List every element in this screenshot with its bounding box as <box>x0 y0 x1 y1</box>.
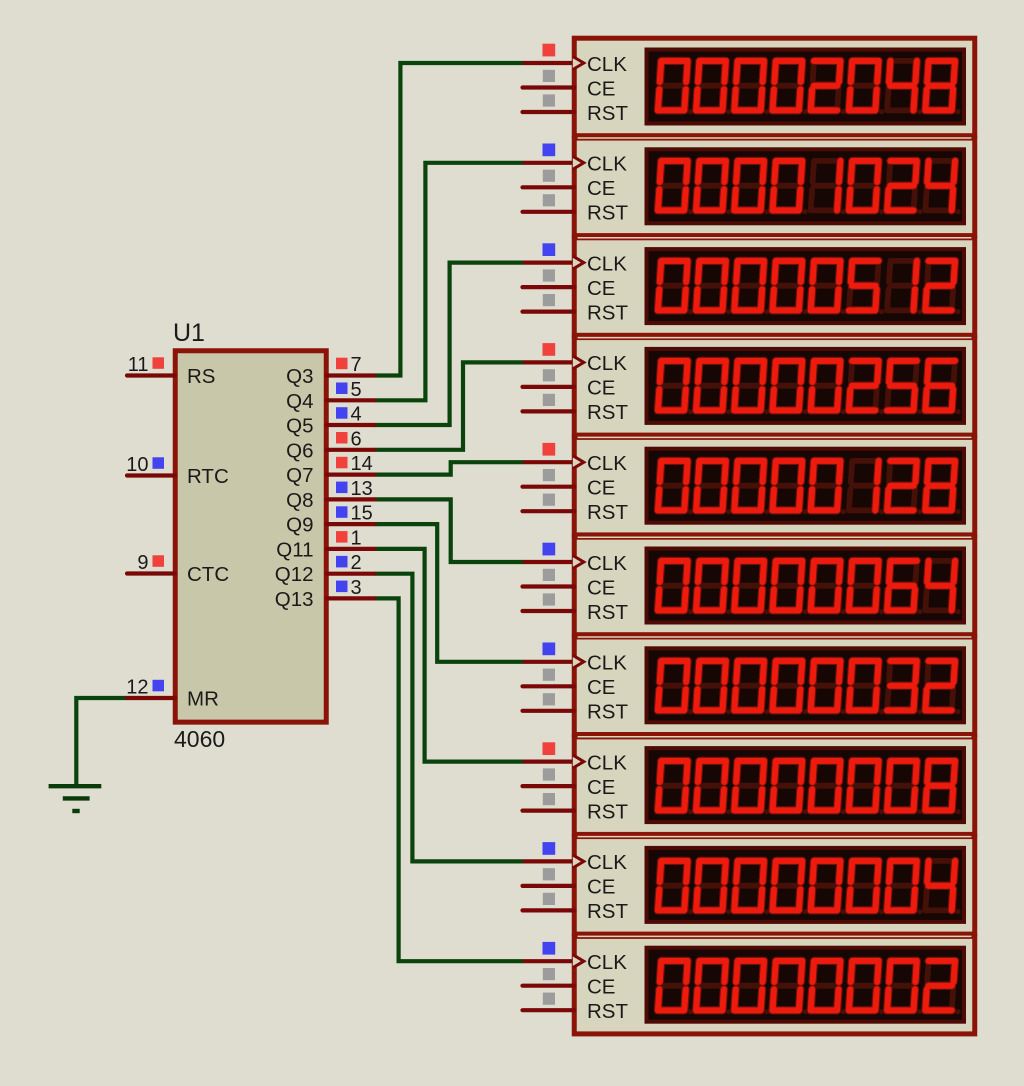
svg-text:Q9: Q9 <box>286 514 313 537</box>
IC U1 4060 body <box>175 351 326 722</box>
svg-text:RST: RST <box>587 501 628 524</box>
pin 7 Q3 (right) <box>286 354 374 388</box>
counter module 2 (1024) <box>523 138 975 236</box>
svg-text:4060: 4060 <box>174 726 225 752</box>
wire Q4 to counter 2 CLK <box>375 163 523 400</box>
svg-text:RTC: RTC <box>187 465 229 488</box>
svg-text:5: 5 <box>351 379 362 401</box>
svg-text:13: 13 <box>351 478 373 500</box>
svg-text:Q11: Q11 <box>276 538 313 561</box>
svg-text:9: 9 <box>137 552 148 574</box>
svg-text:U1: U1 <box>173 319 205 347</box>
svg-text:RST: RST <box>587 800 628 823</box>
module frame separators <box>578 137 972 139</box>
svg-text:RST: RST <box>587 701 628 724</box>
svg-text:CLK: CLK <box>587 652 627 675</box>
pin 13 Q8 (right) <box>286 478 374 512</box>
svg-text:12: 12 <box>126 677 148 699</box>
svg-text:CE: CE <box>587 77 615 100</box>
pin 6 Q6 (right) <box>286 428 374 462</box>
svg-text:RST: RST <box>587 601 628 624</box>
svg-text:CE: CE <box>587 177 615 200</box>
svg-text:Q7: Q7 <box>286 464 313 487</box>
svg-text:CLK: CLK <box>587 452 627 475</box>
svg-text:2: 2 <box>351 552 362 574</box>
svg-text:4: 4 <box>351 404 362 426</box>
svg-text:1: 1 <box>351 527 362 549</box>
svg-text:CLK: CLK <box>587 951 627 974</box>
counter module 4 (256) <box>523 338 975 436</box>
pin 11 RS (left) <box>127 354 215 388</box>
wire Q12 to counter 9 CLK <box>375 574 523 862</box>
svg-text:RST: RST <box>587 301 628 324</box>
counter module 3 (512) <box>523 238 975 335</box>
svg-text:CE: CE <box>587 277 615 300</box>
svg-text:CE: CE <box>587 976 615 999</box>
svg-text:CE: CE <box>587 776 615 799</box>
svg-text:Q6: Q6 <box>286 439 313 462</box>
svg-text:CTC: CTC <box>187 563 229 586</box>
wire Q9 to counter 7 CLK <box>375 524 523 662</box>
ground <box>49 786 102 811</box>
svg-text:14: 14 <box>351 453 373 475</box>
svg-text:Q8: Q8 <box>286 489 313 512</box>
wire Q3 to counter 1 CLK <box>375 63 523 376</box>
svg-text:6: 6 <box>351 428 362 450</box>
counter module 6 (64) <box>523 537 975 635</box>
svg-text:CE: CE <box>587 676 615 699</box>
svg-text:7: 7 <box>351 354 362 376</box>
svg-text:CLK: CLK <box>587 53 627 76</box>
svg-text:RST: RST <box>587 202 628 225</box>
counter module 10 (2) <box>523 936 975 1034</box>
svg-text:MR: MR <box>187 688 219 711</box>
wire MR to ground <box>76 698 127 784</box>
wire Q8 to counter 6 CLK <box>375 499 523 562</box>
counter module 5 (128) <box>523 437 975 535</box>
pin 14 Q7 (right) <box>286 453 374 487</box>
wire Q11 to counter 8 CLK <box>375 549 523 762</box>
pin 2 Q12 (right) <box>275 552 375 586</box>
svg-text:CLK: CLK <box>587 851 627 874</box>
svg-text:CLK: CLK <box>587 552 627 575</box>
svg-text:Q13: Q13 <box>275 588 314 611</box>
svg-text:CE: CE <box>587 576 615 599</box>
pin 9 CTC (left) <box>127 552 229 586</box>
counter module 7 (32) <box>523 637 975 735</box>
pin 10 RTC (left) <box>126 454 229 488</box>
svg-text:CE: CE <box>587 377 615 400</box>
pin 15 Q9 (right) <box>286 503 374 537</box>
svg-text:RS: RS <box>187 365 215 388</box>
wire Q13 to counter 10 CLK <box>375 598 523 961</box>
svg-text:Q3: Q3 <box>286 365 313 388</box>
pin 4 Q5 (right) <box>286 404 374 438</box>
svg-text:RST: RST <box>587 900 628 923</box>
wire Q6 to counter 4 CLK <box>375 362 523 449</box>
pin 5 Q4 (right) <box>286 379 374 413</box>
svg-text:15: 15 <box>351 503 373 525</box>
pin 1 Q11 (right) <box>276 527 374 561</box>
svg-text:3: 3 <box>351 577 362 599</box>
svg-text:CLK: CLK <box>587 751 627 774</box>
svg-text:RST: RST <box>587 1000 628 1023</box>
counter module 1 (2048) <box>523 38 975 136</box>
svg-text:CE: CE <box>587 477 615 500</box>
wire Q5 to counter 3 CLK <box>375 263 523 425</box>
counter module 9 (4) <box>523 837 975 935</box>
pin 12 MR (left) <box>126 677 219 711</box>
svg-text:10: 10 <box>126 454 148 476</box>
svg-text:Q4: Q4 <box>286 390 313 413</box>
pin 3 Q13 (right) <box>275 577 375 611</box>
svg-text:CLK: CLK <box>587 153 627 176</box>
svg-text:RST: RST <box>587 401 628 424</box>
svg-text:RST: RST <box>587 102 628 125</box>
svg-text:CLK: CLK <box>587 352 627 375</box>
svg-text:CE: CE <box>587 876 615 899</box>
wire Q7 to counter 5 CLK <box>375 462 523 474</box>
svg-text:Q12: Q12 <box>275 563 314 586</box>
svg-text:11: 11 <box>128 354 149 376</box>
svg-text:CLK: CLK <box>587 252 627 275</box>
svg-text:Q5: Q5 <box>286 415 313 438</box>
counter module 8 (8) <box>523 737 975 835</box>
